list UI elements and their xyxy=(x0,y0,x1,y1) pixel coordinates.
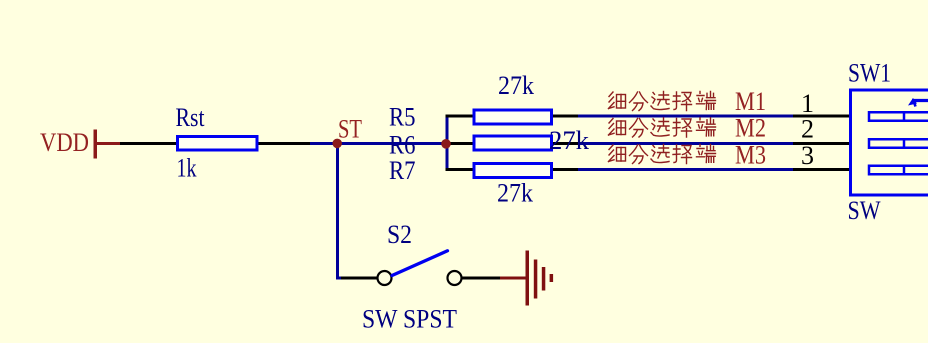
wire xyxy=(446,142,474,145)
net label M3 row xyxy=(609,141,767,170)
switch SW1 box xyxy=(851,90,928,195)
resistor Rst xyxy=(178,137,258,151)
wire xyxy=(446,115,475,118)
wire xyxy=(259,142,311,145)
svg-text:SW SPST: SW SPST xyxy=(362,305,457,334)
wire xyxy=(120,142,177,145)
pin R5.2 lead xyxy=(553,115,578,118)
net label M1 row xyxy=(609,87,767,116)
svg-text:M1: M1 xyxy=(735,87,766,116)
svg-text:1k: 1k xyxy=(177,154,197,183)
pin SW1.2 lead xyxy=(793,142,850,145)
wire xyxy=(341,277,378,280)
ground xyxy=(526,251,554,306)
wire net M1 xyxy=(578,115,793,118)
svg-text:M3: M3 xyxy=(735,141,766,170)
wire xyxy=(338,144,342,279)
power symbol VDD xyxy=(94,130,121,159)
wire xyxy=(500,277,528,280)
switch slot 2 xyxy=(869,139,928,148)
switch S2 arm xyxy=(392,251,448,276)
wire net M2 xyxy=(578,142,793,145)
svg-text:R5: R5 xyxy=(389,103,416,132)
switch S2 circle B xyxy=(448,271,462,285)
pin R7.2 lead xyxy=(553,168,578,171)
pin SW1.3 lead xyxy=(793,168,850,171)
net label M2 row xyxy=(609,114,767,143)
svg-text:ST: ST xyxy=(338,115,362,144)
svg-text:SW1: SW1 xyxy=(848,59,891,88)
resistor R7 xyxy=(474,164,552,178)
svg-text:3: 3 xyxy=(801,141,814,170)
svg-text:27k: 27k xyxy=(549,126,589,155)
switch arrow xyxy=(908,98,928,107)
svg-text:S2: S2 xyxy=(387,220,412,249)
wire net M3 xyxy=(578,168,793,171)
wire xyxy=(462,277,501,280)
wire xyxy=(446,115,449,172)
svg-text:2: 2 xyxy=(801,115,814,144)
wire xyxy=(446,168,475,171)
pin R6.2 lead xyxy=(553,142,578,145)
svg-text:27k: 27k xyxy=(497,179,533,208)
svg-text:M2: M2 xyxy=(735,114,766,143)
svg-text:Rst: Rst xyxy=(176,103,206,132)
svg-text:R7: R7 xyxy=(389,156,416,185)
switch slot 3 xyxy=(869,166,928,175)
node ST xyxy=(332,139,342,149)
switch slot 1 xyxy=(869,112,928,121)
pin SW1.1 lead xyxy=(793,115,850,118)
wire xyxy=(310,142,446,145)
svg-text:VDD: VDD xyxy=(40,128,89,157)
switch S2 circle A xyxy=(378,271,392,285)
svg-text:SW: SW xyxy=(848,196,881,225)
resistor R5 xyxy=(474,110,552,124)
svg-text:27k: 27k xyxy=(498,71,534,100)
node junction xyxy=(441,139,451,149)
resistor R6 xyxy=(474,136,552,150)
